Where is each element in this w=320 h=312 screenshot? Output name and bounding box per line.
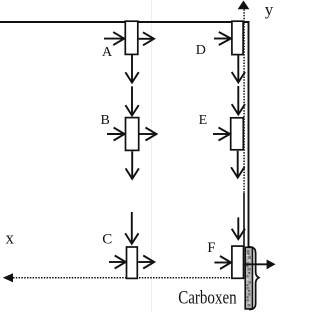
down arrow into F	[232, 217, 245, 239]
down arrow A-1	[125, 55, 138, 83]
outflow arrow right of F (filled head)	[244, 260, 276, 270]
svg-text:B: B	[101, 113, 110, 128]
curly brace right of Carboxen bar	[249, 247, 259, 310]
svg-text:y: y	[265, 0, 274, 19]
arrow out of A	[139, 32, 154, 45]
position rectangle E	[231, 118, 244, 150]
down arrow D-2	[232, 86, 245, 115]
svg-text:D: D	[196, 43, 206, 58]
y-axis solid lower segment	[243, 193, 245, 247]
svg-text:Carboxen: Carboxen	[178, 288, 237, 309]
down arrow A-2	[125, 86, 138, 115]
position rectangle A	[125, 21, 138, 54]
arrow into A	[104, 32, 124, 45]
Carboxen trap bar (speckled fill)	[245, 247, 252, 309]
svg-text:x: x	[6, 228, 15, 247]
down arrow below B	[126, 151, 139, 179]
arrow into E	[213, 128, 230, 141]
position rectangle B	[126, 118, 139, 151]
arrow into B	[107, 128, 125, 141]
svg-text:F: F	[207, 240, 215, 256]
chamber right wall	[248, 21, 250, 247]
x-axis dotted line	[13, 277, 232, 279]
down arrow into C	[125, 212, 138, 244]
chamber top wall	[0, 21, 249, 23]
y-axis arrowhead (filled, up)	[238, 1, 250, 10]
arrow into D	[214, 32, 231, 45]
arrow out of B	[140, 128, 157, 141]
x-axis arrowhead (filled, left)	[3, 273, 13, 282]
position rectangle D	[232, 21, 243, 54]
y-axis dotted line	[243, 9, 245, 193]
scan streak artifact	[151, 0, 153, 312]
position rectangle C	[127, 247, 138, 278]
svg-text:E: E	[199, 113, 208, 128]
svg-text:A: A	[102, 45, 113, 60]
position rectangle F	[232, 246, 244, 278]
svg-text:C: C	[102, 232, 112, 248]
arrow into F	[214, 256, 231, 269]
down arrow D-1	[232, 55, 245, 83]
arrow out of C	[138, 256, 154, 269]
down arrow below E	[231, 151, 244, 178]
arrow into C	[109, 256, 126, 269]
